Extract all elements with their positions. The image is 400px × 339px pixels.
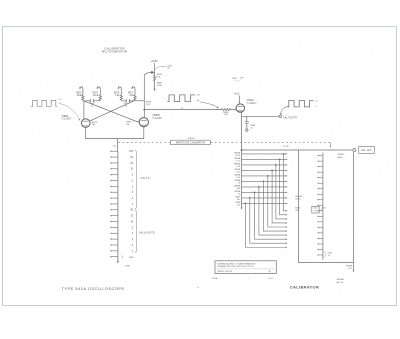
capacitor C873 label	[123, 103, 129, 107]
label V885A	[62, 115, 73, 121]
svg-text:+: +	[248, 278, 250, 280]
svg-text:100k: 100k	[77, 95, 83, 97]
capacitor C888	[245, 116, 249, 131]
switch SW890 contacts	[317, 155, 323, 256]
resistor R890A label	[295, 195, 302, 201]
label SW890	[338, 154, 346, 159]
svg-text:18.2: 18.2	[146, 104, 151, 106]
junction dot plate node	[151, 71, 154, 74]
divider resistor labels R885-R888	[234, 152, 241, 207]
switch box AMPLITUDE CALIBRATOR	[171, 140, 211, 144]
wire: drop to SW870 volts wafer	[117, 139, 119, 152]
svg-text:4-25: 4-25	[236, 171, 241, 173]
switch SW870 contacts	[110, 150, 118, 257]
svg-text:0: 0	[122, 256, 124, 259]
wire: plate node V885B to C873	[121, 99, 135, 102]
svg-text:24P: 24P	[240, 78, 244, 80]
wire: +225V lead	[154, 63, 156, 75]
resistor R877 with +225V supply arrow	[131, 86, 136, 100]
caption: TYPE 541A OSCILLOSCOPE	[62, 287, 125, 291]
tube V885B (right triode)	[139, 118, 148, 127]
resistor R878 label	[146, 101, 152, 105]
wire: R877 node to V885B plate rail	[135, 100, 144, 102]
wire: +100 arrow to plate	[238, 95, 240, 103]
svg-text:-.5: -.5	[315, 106, 317, 108]
label GND at last position	[129, 257, 134, 259]
svg-text:47: 47	[91, 106, 94, 108]
svg-text:56: 56	[167, 68, 170, 70]
svg-text:500: 500	[237, 199, 241, 201]
svg-text:1: 1	[132, 185, 134, 188]
note box footnotes	[211, 250, 287, 280]
resistor R876 with +225V supply arrow	[118, 86, 123, 100]
svg-text:AMPLITUDE CALIBRATOR: AMPLITUDE CALIBRATOR	[176, 142, 206, 145]
svg-text:.5: .5	[131, 244, 134, 247]
label +1.5V	[321, 207, 327, 211]
svg-text:TYPE 541A OSCILLOSCOPE: TYPE 541A OSCILLOSCOPE	[62, 287, 125, 291]
svg-text:CAL. OUT.: CAL. OUT.	[361, 149, 372, 152]
svg-text:1: 1	[132, 238, 134, 241]
waveform: left square wave	[31, 100, 58, 106]
wire: CAL OUT drop	[353, 152, 355, 272]
svg-text:2: 2	[132, 179, 134, 182]
note box: voltage readings note	[215, 261, 276, 274]
leader: left waveform to V885A	[60, 104, 80, 121]
svg-text:10: 10	[130, 168, 133, 171]
bracket VOLTS	[135, 150, 137, 209]
svg-text:+: +	[286, 250, 288, 252]
capacitor C871 label with leader	[154, 66, 167, 71]
svg-text:15: 15	[238, 182, 241, 184]
resistor R890B label	[346, 265, 353, 270]
resistor R880 label	[157, 83, 163, 87]
svg-text:2: 2	[132, 232, 134, 235]
tube V890A cathode follower	[236, 104, 244, 112]
wire: cross-coupling plate B to grid A	[90, 101, 134, 121]
waveform: right square wave	[287, 100, 313, 107]
svg-text:.2: .2	[131, 250, 134, 253]
svg-text:47: 47	[125, 106, 128, 108]
svg-text:(F): (F)	[268, 271, 271, 273]
resistor R872 with +225V supply arrow	[97, 86, 102, 100]
svg-text:20: 20	[130, 215, 133, 218]
svg-text:− GND: − GND	[124, 266, 131, 268]
svg-text:A-P-50: A-P-50	[337, 281, 344, 284]
label C.B.	[113, 146, 117, 148]
svg-text:5: 5	[132, 174, 134, 177]
center waveform labels	[196, 94, 199, 102]
svg-text:±1%: ±1%	[348, 268, 352, 270]
caption: sheet mark	[197, 286, 202, 291]
svg-text:+40: +40	[196, 94, 199, 96]
svg-text:+15: +15	[58, 99, 61, 101]
svg-text:C-8-1: C-8-1	[268, 278, 273, 280]
svg-text:39: 39	[238, 193, 241, 195]
supply +100 annotation	[234, 93, 240, 96]
svg-text:SW870: SW870	[188, 138, 196, 140]
label V890A	[247, 99, 258, 105]
supply +225V node	[151, 60, 159, 63]
wire: arrow to -150V	[154, 89, 156, 92]
capacitor C890 hook and label	[324, 252, 326, 258]
svg-text:½ 12AU7: ½ 12AU7	[152, 116, 163, 120]
svg-text:½ 12AU7: ½ 12AU7	[62, 117, 73, 121]
svg-text:SW-A-B: SW-A-B	[337, 278, 345, 281]
svg-text:1.5k: 1.5k	[236, 177, 240, 179]
svg-text:+: +	[197, 286, 199, 290]
resistor R870 with +225V supply arrow	[79, 86, 84, 100]
svg-text:97.6k: 97.6k	[235, 155, 240, 157]
resistor R874 label (grid)	[92, 122, 98, 126]
waveform: center square wave	[167, 95, 194, 102]
svg-text:+225V: +225V	[151, 60, 159, 63]
svg-text:20.5k: 20.5k	[295, 199, 301, 201]
svg-text:50: 50	[130, 209, 133, 212]
leader: right waveform to cal test point	[280, 106, 289, 115]
svg-text:+.5: +.5	[315, 100, 318, 102]
svg-text:-40: -40	[196, 100, 199, 102]
svg-text:500: 500	[295, 210, 299, 212]
svg-text:.01: .01	[250, 128, 254, 130]
left waveform labels	[58, 99, 61, 105]
label V885B	[152, 114, 163, 120]
wire: plate node V885A to C870	[83, 99, 100, 102]
svg-text:1M: 1M	[92, 124, 95, 126]
wire: cathode down to divider bus	[241, 112, 243, 150]
svg-text:.5: .5	[131, 191, 134, 194]
relay K890 label	[295, 208, 301, 213]
wire: cathode rail	[86, 127, 144, 139]
svg-text:VOLTS: VOLTS	[140, 177, 150, 180]
svg-text:1%: 1%	[328, 255, 331, 257]
svg-text:2.5k: 2.5k	[236, 166, 240, 168]
resistor R879	[153, 75, 155, 89]
svg-text:A,B,F: A,B,F	[338, 156, 344, 159]
svg-text:SW870 CIRCUIT: SW870 CIRCUIT	[217, 271, 233, 273]
caption: SW-A-B A-P-50	[337, 278, 345, 284]
svg-text:CAL TEST PT.: CAL TEST PT.	[283, 117, 298, 120]
svg-text:220k: 220k	[93, 95, 99, 97]
connector box CAL OUT	[359, 147, 375, 154]
svg-text:R 2 B: R 2 B	[283, 146, 289, 148]
svg-text:47k: 47k	[224, 114, 228, 116]
title: CALIBRATOR MULTIVIBRATOR	[102, 47, 128, 54]
gang line end tick	[330, 142, 332, 147]
capacitor C870 label	[90, 103, 96, 107]
caption: CALIBRATOR	[290, 284, 319, 289]
right waveform labels	[315, 100, 318, 108]
svg-text:750k: 750k	[157, 85, 163, 87]
wire: left side of output wafer loop	[298, 150, 300, 263]
component box L890	[312, 206, 319, 213]
label CAL TEST PT	[283, 117, 298, 120]
svg-text:82k: 82k	[130, 95, 135, 97]
resistor R883	[222, 109, 231, 111]
wire: plate branch to V885B	[144, 72, 154, 117]
svg-text:1M: 1M	[126, 124, 129, 126]
svg-text:.1: .1	[131, 203, 134, 206]
label SW870	[188, 138, 196, 140]
svg-text:20: 20	[130, 162, 133, 165]
svg-text:.2: .2	[131, 197, 134, 200]
svg-text:3.9k: 3.9k	[115, 95, 120, 97]
junction dot output node	[143, 109, 145, 111]
svg-text:250: 250	[237, 204, 241, 206]
tube V885A (left triode)	[81, 119, 90, 128]
wire: plate lead into V885A	[83, 101, 85, 119]
svg-text:GND: GND	[129, 257, 134, 259]
svg-text:+100: +100	[234, 93, 240, 96]
leader: center waveform to output line	[200, 102, 219, 109]
label ground note	[124, 266, 131, 268]
wire: output line to V890A grid	[144, 109, 237, 111]
svg-text:MULTIVIBRATOR: MULTIVIBRATOR	[102, 50, 128, 54]
switch gang dashed line (right)	[211, 141, 331, 143]
svg-text:5: 5	[132, 226, 134, 229]
junction mark on output line	[181, 107, 184, 110]
svg-text:.: .	[202, 287, 203, 291]
svg-text:C.B.: C.B.	[113, 146, 117, 148]
svg-text:1-3.5: 1-3.5	[236, 160, 241, 162]
svg-text:10: 10	[130, 220, 133, 223]
svg-text:100: 100	[129, 150, 134, 153]
svg-text:NUMERICAL AND VOLTAGE READINGS: NUMERICAL AND VOLTAGE READINGS	[217, 262, 256, 265]
label R2B	[283, 146, 289, 148]
wire: cal test point line	[242, 115, 279, 117]
wire: divider bus from cathode	[241, 150, 243, 210]
capacitor C884 annotation	[232, 78, 244, 81]
bracket MILLIVOLTS	[135, 210, 137, 252]
wire: bottom rail to R890B	[299, 262, 354, 264]
svg-text:MILLIVOLTS: MILLIVOLTS	[139, 232, 154, 235]
svg-text:C884: C884	[232, 78, 238, 80]
terminal: cal test point	[279, 115, 282, 118]
svg-text:10k: 10k	[157, 76, 161, 78]
terminal: CAL OUT jack	[353, 149, 356, 152]
divider junction dots	[245, 153, 285, 204]
svg-text:50: 50	[130, 156, 133, 159]
switch SW890 output wafer	[322, 153, 324, 260]
switch SW870 position labels	[122, 150, 134, 258]
wire: output rail to CAL OUT	[242, 149, 353, 151]
wire: cross-coupling plate A to grid B	[84, 101, 139, 122]
switch SW870 volts wafer: wiper bus	[117, 151, 119, 263]
svg-text:CALIBRATOR: CALIBRATOR	[290, 284, 319, 289]
resistor R875 label (grid)	[126, 122, 132, 126]
svg-text:OBTAINED WITH CAL. SWITCH IN 1: OBTAINED WITH CAL. SWITCH IN 100 POS.	[217, 265, 254, 268]
switch gang dashed line (left)	[118, 141, 170, 143]
svg-text:800: 800	[237, 188, 241, 190]
junction: bus to output rail	[241, 149, 243, 151]
svg-text:½ 12AU7: ½ 12AU7	[247, 101, 258, 105]
svg-text:C720A: C720A	[211, 277, 218, 280]
divider ladder taps and switch contacts	[242, 153, 288, 248]
